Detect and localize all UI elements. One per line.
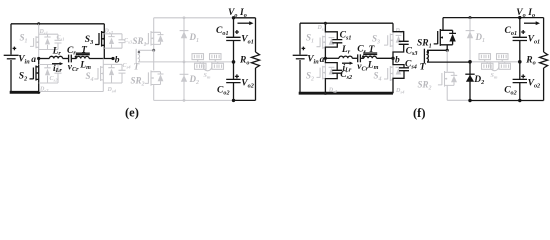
wire: Cr to T (f) <box>360 57 364 59</box>
gray rectifier box 3 <box>195 62 207 69</box>
svg-text:Vo2: Vo2 <box>241 79 254 90</box>
transistor S1 (gray) mosfet <box>35 36 37 48</box>
transistor S3 (gray) (f) <box>392 32 394 52</box>
svg-text:T: T <box>134 61 140 71</box>
battery Vin (f) <box>293 54 308 56</box>
svg-text:Sm: Sm <box>491 73 498 79</box>
wire: SR2 source to gray bottom rail <box>153 85 155 101</box>
svg-text:Vo: Vo <box>516 8 525 19</box>
battery Vin (e) <box>4 54 19 56</box>
wire: (e) right rail upper <box>255 18 257 52</box>
transformer core lines (e) <box>76 53 90 55</box>
node b junction dot <box>111 57 114 60</box>
svg-text:SR1: SR1 <box>133 36 147 48</box>
svg-text:Vo1: Vo1 <box>528 35 541 46</box>
svg-text:D2: D2 <box>473 75 484 86</box>
capacitor Co1 (f) <box>519 18 521 38</box>
node: D2 bottom junction (f) <box>468 99 471 102</box>
transistor S3 (black) <box>103 24 105 59</box>
capacitor Co2 (f) <box>513 79 527 82</box>
transistor S2 (black) <box>38 59 40 93</box>
svg-text:Lr: Lr <box>52 46 62 57</box>
svg-text:S2: S2 <box>306 71 314 83</box>
gray rectifier box 1 (f) <box>479 54 491 62</box>
svg-text:a: a <box>31 55 36 65</box>
svg-text:Ds4: Ds4 <box>395 88 405 94</box>
svg-text:Co1: Co1 <box>505 26 518 37</box>
node: (f) top rail junction Cs1 <box>324 22 327 25</box>
wire: (f) top primary rail <box>300 22 393 24</box>
wire: (f) mid secondary wire gray <box>470 61 520 63</box>
wire: S3 snubber branches (gray) <box>104 34 122 48</box>
wire: main line a to Lr (f) <box>325 57 339 59</box>
capacitor Cs2 (gray) <box>55 70 62 73</box>
capacitor Cr (f) <box>358 54 361 62</box>
svg-text:Co1: Co1 <box>216 26 229 37</box>
svg-text:Cs2: Cs2 <box>50 76 59 82</box>
wire: (e) gray secondary bottom rail <box>154 99 234 101</box>
svg-text:Ds1: Ds1 <box>317 25 326 31</box>
transformer polarity dot secondary (f) <box>427 51 429 53</box>
current arrow Io (e) <box>238 22 250 24</box>
diode Ds1 (gray) <box>44 34 50 49</box>
svg-text:Cs4: Cs4 <box>123 63 132 69</box>
wire: SR2 source to bottom (gray) <box>446 85 448 100</box>
svg-text:Cs4: Cs4 <box>405 60 417 71</box>
svg-text:SR2: SR2 <box>418 80 432 92</box>
transformer polarity dot primary (e) <box>75 56 77 58</box>
diode D1 (gray) <box>180 30 189 32</box>
svg-text:Co2: Co2 <box>217 86 230 97</box>
current arrow iLr (e) <box>52 63 60 65</box>
svg-text:iLr: iLr <box>343 63 352 73</box>
wire: Cr to T <box>71 58 76 60</box>
diode Ds2 (gray) (f) <box>329 66 335 68</box>
svg-text:SR1: SR1 <box>417 38 432 49</box>
svg-text:D1: D1 <box>475 32 486 44</box>
svg-text:Io: Io <box>527 8 535 19</box>
diode Ds4 (gray) (f) <box>396 66 402 68</box>
svg-text:S1: S1 <box>20 33 28 45</box>
node: Co2 bottom junction (f) <box>518 99 521 102</box>
diode D2 (gray) <box>180 73 189 75</box>
wire: (f) mid secondary wire black <box>427 61 470 63</box>
resistor Ro zigzag (e) <box>252 52 260 68</box>
transformer secondary winding (e) gray <box>135 49 137 64</box>
svg-text:S4: S4 <box>374 71 382 83</box>
wire: T to node b <box>89 58 113 60</box>
wire: (f) output bottom rail black <box>470 100 544 102</box>
wire: gray diode leg vertical <box>183 18 185 101</box>
plus sign Co1 (e) <box>235 30 239 34</box>
gray center loop <box>203 62 212 71</box>
svg-text:Sm: Sm <box>204 73 211 79</box>
wire: (e) top primary rail <box>11 23 104 25</box>
svg-text:Vin: Vin <box>18 55 30 66</box>
capacitor Co1 (e) <box>233 18 235 37</box>
current arrow iLr (f) <box>342 62 350 64</box>
svg-text:Vo: Vo <box>228 8 237 19</box>
transformer T primary winding (f) <box>364 56 377 58</box>
transistor SR2 (gray) <box>153 50 155 70</box>
diode Ds2 (gray) <box>44 65 50 84</box>
node: (e) bottom rail junction S2 source <box>37 91 40 94</box>
capacitor Cs3 (gray) <box>119 40 126 43</box>
wire: (e) gray secondary top rail <box>154 17 234 19</box>
wire: main resonant line a to Lr <box>39 58 50 60</box>
wire: (e) gray bottom rail to S4 <box>39 91 104 93</box>
wire: (f) right rail lower <box>543 68 545 101</box>
node: Co1 top junction <box>232 16 235 19</box>
diode Ds3 (gray) (f) <box>396 34 402 36</box>
wire: (f) left rail lower <box>299 60 301 93</box>
svg-text:SR2: SR2 <box>131 76 145 88</box>
gray rectifier box 3 (f) <box>482 62 494 70</box>
node: SR1/SR2/winding junction (gray) <box>152 49 155 52</box>
svg-text:Cr: Cr <box>357 45 366 56</box>
capacitor Cr (e) <box>69 55 72 63</box>
capacitor Cs2 (black) (f) <box>325 58 337 70</box>
diode Ds1 (gray) (f) <box>329 37 335 39</box>
wire: winding top to SR node (gray) <box>138 49 154 51</box>
wire: (f) left rail upper <box>299 23 301 54</box>
transistor S4 (gray) (f) <box>392 58 394 93</box>
wire: (e) right rail lower <box>255 68 257 100</box>
gray center loop (f) <box>490 62 499 71</box>
wire: (e) left rail lower <box>10 60 12 92</box>
wire: (e) gray mid secondary wire <box>138 61 233 63</box>
diode D2 (black) (f) <box>465 73 474 75</box>
wire: (f) right rail upper <box>543 18 545 52</box>
svg-text:Cs1: Cs1 <box>57 35 65 41</box>
inductor Lr (e) <box>49 56 62 58</box>
resistor Ro zigzag (f) <box>540 52 548 68</box>
svg-text:Ds4: Ds4 <box>107 87 117 93</box>
svg-text:Ds2: Ds2 <box>328 88 338 94</box>
svg-text:Vin: Vin <box>307 55 319 66</box>
current arrow Io (f) <box>524 22 536 24</box>
node a junction dot <box>37 57 40 60</box>
transformer core lines (f) <box>363 53 377 55</box>
node: Co1 top junction (f) <box>518 16 521 19</box>
svg-text:Ro: Ro <box>239 56 249 67</box>
wire: (e) bottom primary rail black <box>10 91 39 94</box>
node: SR1/SR2/winding junction (f) <box>446 49 449 52</box>
node: output cap midpoint <box>232 60 236 64</box>
wire: Lr to Cr (f) <box>352 57 357 59</box>
diode D1 (gray) (f) <box>466 30 475 32</box>
gray rectifier box 2 (f) <box>497 54 509 62</box>
svg-text:Ds1: Ds1 <box>39 29 48 35</box>
svg-text:S1: S1 <box>306 33 314 45</box>
svg-text:Cs3: Cs3 <box>124 38 133 44</box>
wire: S4 snubber branches (gray) <box>103 64 122 83</box>
svg-text:b: b <box>395 55 400 65</box>
wire: (f) bottom primary rail black <box>299 92 393 95</box>
transformer polarity dot primary (f) <box>362 55 364 57</box>
wire: S2 snubber branches (gray) <box>39 65 58 84</box>
transistor SR1 (gray) <box>153 18 155 50</box>
plus sign Co2 (f) <box>521 74 525 78</box>
inductor Lr (f) <box>339 56 352 58</box>
svg-text:Co2: Co2 <box>504 86 517 97</box>
svg-text:Ds2: Ds2 <box>39 87 49 93</box>
wire: S1 snubber branch wires (gray) <box>39 34 58 49</box>
gray rectifier box 1 <box>192 54 204 62</box>
wire: gray D1 leg upper (f) <box>469 18 471 62</box>
svg-text:(e): (e) <box>125 106 139 120</box>
gray rectifier box 2 <box>210 54 222 62</box>
capacitor Cs4 (black) (f) <box>393 58 404 67</box>
svg-text:Lm: Lm <box>367 60 379 71</box>
node: gray D-leg bottom junction <box>183 99 186 102</box>
diode Ds4 (gray) <box>108 64 114 83</box>
node: (f) bottom rail junction Cs2 <box>324 92 327 95</box>
svg-text:Lr: Lr <box>341 45 351 56</box>
wire: D2 leg black (f) <box>469 62 471 101</box>
capacitor Cs1 (black) (f) <box>325 23 337 39</box>
wire: winding top to SR node (f) <box>427 49 447 51</box>
diode Ds3 (gray) <box>108 34 114 48</box>
transformer polarity dot secondary (e) <box>138 51 140 53</box>
svg-text:a: a <box>320 55 325 65</box>
capacitor Co2 (e) <box>226 79 240 82</box>
svg-text:(f): (f) <box>413 106 426 120</box>
node: (e) top rail junction at S1 drain <box>37 22 40 25</box>
transistor SR1 (black) (f) <box>442 18 444 31</box>
svg-text:Cs1: Cs1 <box>340 31 352 42</box>
svg-text:D2: D2 <box>189 74 200 86</box>
transistor S1 (gray) (f) <box>324 23 326 58</box>
wire: (e) output top rail black <box>234 17 256 19</box>
svg-text:Cr: Cr <box>67 46 76 57</box>
svg-text:T: T <box>420 62 427 72</box>
transistor S1 (gray) leg vertical <box>38 24 40 59</box>
svg-text:Io: Io <box>239 8 247 19</box>
svg-text:S3: S3 <box>85 35 93 46</box>
svg-text:Vo1: Vo1 <box>241 35 254 46</box>
node: D2 mid junction (f) <box>468 60 472 64</box>
svg-text:S4: S4 <box>86 71 94 83</box>
node: cap midpoint (f) <box>518 60 522 64</box>
svg-text:S2: S2 <box>19 72 27 83</box>
svg-text:Cs3: Cs3 <box>406 46 418 57</box>
transformer secondary winding (f) black <box>423 49 425 64</box>
wire: (e) left rail upper <box>10 24 12 55</box>
gray rectifier box 4 <box>212 62 224 69</box>
node: gray D-leg top junction <box>183 16 186 19</box>
plus sign Co1 (f) <box>521 30 525 34</box>
node: Co2 bottom junction <box>232 99 235 102</box>
node: gray D-leg mid junction <box>183 61 186 64</box>
transistor SR2 (gray) (f) <box>446 50 448 71</box>
capacitor Cs4 (gray) <box>119 70 126 73</box>
svg-text:Ro: Ro <box>525 56 535 67</box>
wire: gray bottom rail SR2 to D2 (f) <box>447 99 470 101</box>
node a junction dot (f) <box>324 57 327 60</box>
plus sign Co2 (e) <box>235 74 239 78</box>
wire: Lr to Cr <box>63 58 69 60</box>
wire: T to node b (f) <box>377 57 394 59</box>
node b junction dot (f) <box>391 57 394 60</box>
svg-text:Vo2: Vo2 <box>528 79 541 90</box>
svg-text:Lm: Lm <box>79 60 91 71</box>
transformer T primary winding (e) <box>77 56 90 58</box>
capacitor Cs3 (black) (f) <box>393 23 404 41</box>
transistor S4 (gray) leg <box>102 59 104 92</box>
gray rectifier box 4 (f) <box>499 62 511 70</box>
capacitor Cs1 (gray) <box>55 40 62 43</box>
transistor S2 (gray) (f) <box>324 58 326 93</box>
node: D1 top junction (f) <box>469 16 472 19</box>
svg-text:D1: D1 <box>189 32 200 44</box>
svg-text:vCr: vCr <box>68 63 79 73</box>
svg-text:S3: S3 <box>372 34 380 46</box>
wire: (e) output bottom rail black <box>234 99 256 101</box>
wire: (f) secondary top rail black <box>443 17 544 19</box>
